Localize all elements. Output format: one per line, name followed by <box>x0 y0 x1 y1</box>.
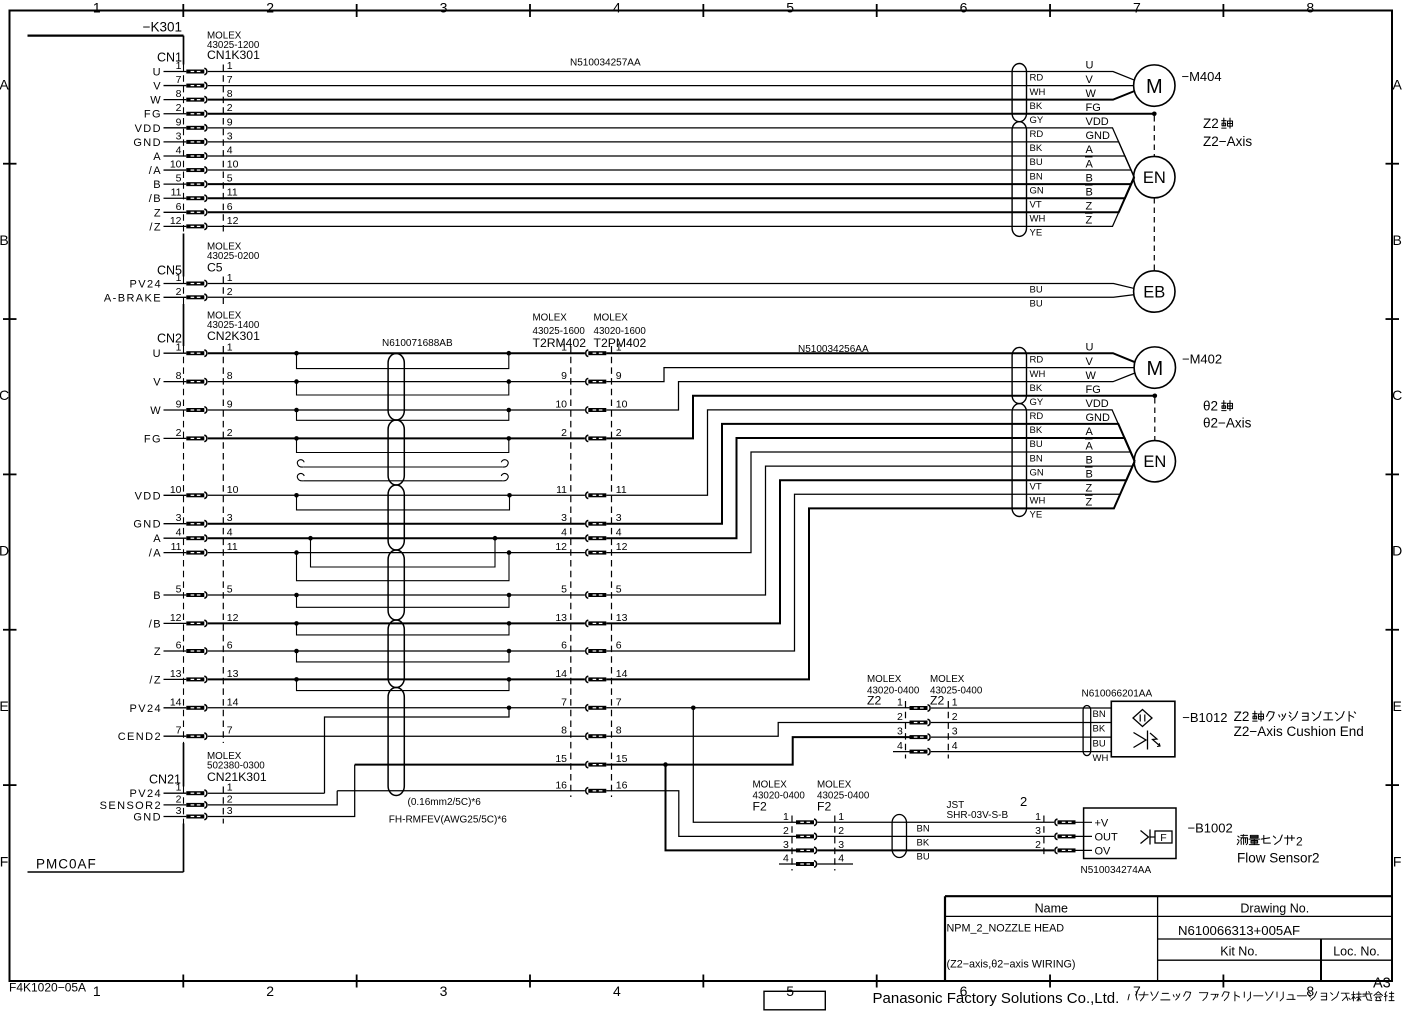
svg-text:4: 4 <box>176 144 182 156</box>
svg-text:8: 8 <box>176 370 182 382</box>
wire CN21 PV24 from PV24 node <box>208 792 325 794</box>
svg-text:5: 5 <box>176 173 182 185</box>
svg-text:D: D <box>0 543 9 559</box>
unit PMC0AF bottom edge <box>28 871 184 873</box>
svg-text:FG: FG <box>1086 102 1101 114</box>
svg-text:4: 4 <box>227 144 233 156</box>
connector CN2 pin 6 (Z) <box>154 640 233 659</box>
svg-text:MOLEX: MOLEX <box>753 780 788 791</box>
wire CN2 pin 5 B to T2RM402 pin 5 <box>208 594 585 596</box>
svg-text:Z: Z <box>1086 201 1093 213</box>
wire CN1 pin 7 V to Z2 motor cable (WH) <box>208 85 1134 87</box>
svg-text:3: 3 <box>227 130 233 142</box>
twisted-pair loop B with junctions <box>294 593 511 608</box>
wire Z2 pin 1 to sensor B1012 (BN) <box>931 707 1111 709</box>
svg-text:1: 1 <box>838 811 844 823</box>
wire CN1 pin 6 Z to Z2 motor cable (WH) <box>208 177 1134 212</box>
wire F2 pin 2 to sensor B1002 (BK) <box>817 835 1054 837</box>
svg-text:3: 3 <box>561 512 567 524</box>
svg-text:B: B <box>1086 172 1093 184</box>
svg-text:11: 11 <box>227 187 238 199</box>
svg-text:V: V <box>1086 356 1094 368</box>
svg-text:W: W <box>1086 88 1097 100</box>
svg-text:Z2−Axis: Z2−Axis <box>1203 134 1252 149</box>
cable shield Z2 motor wires <box>1012 64 1026 122</box>
svg-text:6: 6 <box>227 201 233 213</box>
svg-text:B: B <box>1086 468 1093 480</box>
svg-text:16: 16 <box>555 779 567 791</box>
svg-text:1: 1 <box>227 60 233 72</box>
svg-text:2: 2 <box>1035 839 1041 851</box>
svg-text:1: 1 <box>93 0 101 16</box>
wire T2PM402 pin 15 GND to Z2 connector pin 3 <box>606 737 909 765</box>
svg-text:RD: RD <box>1030 129 1044 140</box>
svg-text:3: 3 <box>227 805 233 817</box>
wire T2PM402 pin 14 to theta2 cable (YE) <box>606 461 1134 679</box>
svg-text:4: 4 <box>897 740 903 752</box>
svg-text:8: 8 <box>616 725 622 737</box>
connector CN2 pin 10 (VDD) <box>135 484 239 503</box>
svg-text:F: F <box>1160 832 1166 844</box>
svg-text:BN: BN <box>1093 709 1106 720</box>
connector B1002 boundary line <box>1043 816 1045 858</box>
svg-text:MOLEX: MOLEX <box>867 674 902 685</box>
connector T2RM402 boundary line <box>570 346 572 797</box>
junction PV24 to flow sensor F2 <box>691 706 696 711</box>
svg-text:2: 2 <box>176 102 182 114</box>
svg-text:M: M <box>1146 76 1163 98</box>
svg-text:MOLEX: MOLEX <box>594 313 629 324</box>
connector CN1 pin 9 (VDD) <box>135 116 233 135</box>
svg-text:MOLEX: MOLEX <box>930 674 965 685</box>
encoder EN Z2 <box>1134 156 1175 197</box>
svg-text:14: 14 <box>555 668 567 680</box>
wire CN1 pin 9 VDD to Z2 motor cable (RD) <box>208 128 1134 177</box>
wire CN1 pin 3 GND to Z2 motor cable (BK) <box>208 142 1134 177</box>
svg-text:D: D <box>1392 543 1402 559</box>
svg-text:B: B <box>1086 186 1093 198</box>
dashed link motor M404 to encoder <box>1153 116 1155 156</box>
svg-text:E: E <box>1393 698 1402 714</box>
svg-text:CN1K301: CN1K301 <box>207 48 260 62</box>
svg-text:3: 3 <box>176 130 182 142</box>
wire CN2 pin 11 /A to T2RM402 pin 12 <box>208 552 585 554</box>
svg-text:B: B <box>1393 232 1402 248</box>
wire CN2 pin 7 CEND2 to T2RM402 pin 8 <box>208 735 585 737</box>
svg-text:A: A <box>153 533 162 545</box>
connector T2RM402/T2PM402 pin 4 <box>561 527 622 542</box>
svg-text:Z2−Axis Cushion End: Z2−Axis Cushion End <box>1234 724 1364 739</box>
svg-text:WH: WH <box>1093 753 1109 764</box>
svg-text:2: 2 <box>952 711 958 723</box>
svg-text:B: B <box>1086 454 1093 466</box>
connector CN1 pin 1 (U) <box>153 60 233 79</box>
cable N610071688AB shield column <box>388 354 404 421</box>
svg-text:U: U <box>1086 60 1094 72</box>
cable shield theta2 encoder wires <box>1012 404 1026 517</box>
connector F2 pin 1 <box>783 811 844 826</box>
svg-text:PV24: PV24 <box>129 279 162 291</box>
svg-text:C5: C5 <box>207 261 223 275</box>
connector T2RM402/T2PM402 pin 7 <box>561 696 622 711</box>
wire CN1 pin 10 /A to Z2 motor cable (BN) <box>208 170 1134 177</box>
svg-text:8: 8 <box>561 725 567 737</box>
connector CN2 pin 2 (FG) <box>144 427 233 446</box>
wire T2PM402 pin 4 to theta2 cable (BU) <box>606 438 1134 538</box>
svg-text:12: 12 <box>170 612 182 624</box>
wire T2PM402 pin 6 to theta2 cable (WH) <box>606 461 1134 651</box>
svg-text:14: 14 <box>170 696 182 708</box>
svg-text:1: 1 <box>952 697 958 709</box>
wire CN2 pin 6 Z to T2RM402 pin 6 <box>208 650 585 652</box>
svg-text:5: 5 <box>227 173 233 185</box>
connector CN2 pin 3 (GND) <box>133 512 232 531</box>
svg-text:FG: FG <box>144 433 162 445</box>
svg-text:WH: WH <box>1030 496 1046 507</box>
svg-text:VT: VT <box>1030 481 1042 492</box>
svg-text:4: 4 <box>227 527 233 539</box>
wire T2PM402 pin 7 PV24 to Z2 connector pin 1 <box>606 707 909 709</box>
svg-text:/A: /A <box>149 548 162 560</box>
svg-text:12: 12 <box>227 215 239 227</box>
svg-text:W: W <box>150 405 162 417</box>
svg-text:10: 10 <box>170 484 182 496</box>
connector CN21 pin 2 (SENSOR2) <box>100 793 233 812</box>
connector F2 pin 3 <box>783 839 844 854</box>
svg-text:GY: GY <box>1030 397 1044 408</box>
connector CN1 pin 2 (FG) <box>144 102 233 121</box>
svg-text:3: 3 <box>440 0 448 16</box>
wire CN1 pin 8 W to Z2 motor cable (BK) <box>208 91 1135 100</box>
connector T2RM402/T2PM402 pin 10 <box>555 399 627 414</box>
svg-text:2: 2 <box>838 825 844 837</box>
svg-text:7: 7 <box>1133 983 1141 999</box>
unit PMC0AF rail <box>183 36 185 65</box>
dashed link motor M402 to encoder <box>1154 398 1156 441</box>
svg-text:1: 1 <box>176 782 182 794</box>
svg-text:1: 1 <box>616 342 622 354</box>
connector CN1 pin 12 (/Z) <box>149 215 238 234</box>
connector CN2 pin 12 (/B) <box>149 612 239 631</box>
twisted-pair loop A with junctions <box>308 536 497 567</box>
svg-text:W: W <box>150 95 162 107</box>
wire F2 pin 3 to sensor B1002 (BU) <box>817 849 1054 851</box>
connector T2RM402/T2PM402 pin 2 <box>561 427 622 442</box>
svg-text:RD: RD <box>1030 411 1044 422</box>
svg-text:12: 12 <box>227 612 239 624</box>
connector CN2 pin 9 (W) <box>150 399 233 418</box>
svg-text:4: 4 <box>613 983 621 999</box>
svg-text:9: 9 <box>227 116 233 128</box>
svg-text:WH: WH <box>1030 87 1046 98</box>
svg-text:6: 6 <box>176 201 182 213</box>
svg-text:3: 3 <box>227 512 233 524</box>
title block <box>945 895 1392 897</box>
svg-text:7: 7 <box>176 74 182 86</box>
svg-text:OV: OV <box>1095 845 1112 857</box>
connector CN21 boundary line <box>222 787 224 824</box>
svg-text:5: 5 <box>227 584 233 596</box>
connector T2RM402/T2PM402 pin 15 <box>555 753 627 768</box>
svg-text:16: 16 <box>616 779 628 791</box>
svg-text:7: 7 <box>227 725 233 737</box>
svg-text:/Z: /Z <box>149 674 162 686</box>
svg-text:Drawing No.: Drawing No. <box>1240 902 1309 916</box>
connector B1002 pin 3 <box>1035 825 1075 840</box>
svg-text:9: 9 <box>176 399 182 411</box>
svg-text:4: 4 <box>838 853 844 865</box>
svg-text:10: 10 <box>227 159 239 171</box>
svg-text:PV24: PV24 <box>129 788 162 800</box>
wire CN2 pin 8 V to T2RM402 pin 9 <box>208 381 585 383</box>
svg-text:GY: GY <box>1030 115 1044 126</box>
svg-text:12: 12 <box>616 541 628 553</box>
svg-text:GN: GN <box>1030 467 1044 478</box>
svg-text:GND: GND <box>133 519 162 531</box>
svg-text:EN: EN <box>1143 169 1166 187</box>
svg-text:WH: WH <box>1030 369 1046 380</box>
connector F2 pin 4 <box>783 853 844 868</box>
connector CN1 pin 11 (/B) <box>149 187 238 206</box>
svg-text:/B: /B <box>149 193 162 205</box>
svg-text:2: 2 <box>227 102 233 114</box>
wire CN2 pin 10 VDD to T2RM402 pin 11 <box>208 494 585 496</box>
svg-text:15: 15 <box>616 753 628 765</box>
wire CN5 pin 1 PV24 to brake EB (BU) <box>208 284 1134 289</box>
svg-text:B: B <box>153 179 162 191</box>
svg-text:B: B <box>0 232 9 248</box>
wire CN2 pin 12 /B to T2RM402 pin 13 <box>208 622 585 624</box>
wire T2PM402 pin 8 CEND2 to Z2 connector pin 2 <box>606 723 909 737</box>
svg-text:VDD: VDD <box>135 123 162 135</box>
svg-text:1: 1 <box>897 697 903 709</box>
wire CN2 pin 14 PV24 to T2RM402 pin 7 <box>208 707 585 709</box>
svg-text:7: 7 <box>616 696 622 708</box>
svg-text:BU: BU <box>1030 285 1043 296</box>
connector CN2 pin 8 (V) <box>153 370 233 389</box>
connector CN2 pin 1 (U) <box>153 342 233 361</box>
svg-text:2: 2 <box>227 427 233 439</box>
wire Z2 pin 2 to sensor B1012 (BK) <box>931 722 1111 724</box>
svg-text:FG: FG <box>144 109 162 121</box>
cable shield theta2 motor wires <box>1012 347 1026 403</box>
svg-text:VT: VT <box>1030 199 1042 210</box>
svg-text:2: 2 <box>176 427 182 439</box>
stub F2 pin 4 <box>779 863 796 865</box>
svg-text:2: 2 <box>897 711 903 723</box>
svg-text:M: M <box>1146 358 1163 380</box>
svg-text:EB: EB <box>1143 283 1165 301</box>
svg-text:2: 2 <box>176 286 182 298</box>
wire T2PM402 pin 13 to theta2 cable (VT) <box>606 461 1134 623</box>
wire CN1 pin 2 FG to Z2 motor cable (GY) <box>208 113 1155 115</box>
connector CN2 pin 5 (B) <box>153 584 233 603</box>
svg-text:−B1002: −B1002 <box>1188 821 1233 836</box>
wire CN2 pin 9 W to T2RM402 pin 10 <box>208 409 585 411</box>
svg-text:BU: BU <box>1030 299 1043 310</box>
svg-text:BK: BK <box>1030 383 1043 394</box>
svg-text:BK: BK <box>1030 425 1043 436</box>
connector T2PM402 boundary line <box>611 346 613 797</box>
wire CN1 pin 11 /B to Z2 motor cable (VT) <box>208 177 1134 198</box>
wire T2PM402 pin 1 to theta2 cable (RD) <box>606 353 1135 362</box>
svg-text:A3: A3 <box>1373 976 1391 992</box>
svg-text:Z: Z <box>1086 497 1093 509</box>
connector CN2 pin 13 (/Z) <box>149 668 238 687</box>
svg-text:3: 3 <box>176 512 182 524</box>
svg-text:2: 2 <box>783 825 789 837</box>
svg-text:C: C <box>0 387 9 403</box>
connector Z2 boundary lines <box>905 701 907 759</box>
wire CN5 pin 2 A-BRAKE to brake EB (BU) <box>208 295 1134 298</box>
connector T2RM402/T2PM402 pin 14 <box>555 668 627 683</box>
svg-text:3: 3 <box>783 839 789 851</box>
svg-text:4: 4 <box>952 740 958 752</box>
wire T2PM402 pin 12 to theta2 cable (BN) <box>606 452 1134 553</box>
svg-text:10: 10 <box>227 484 239 496</box>
connector CN5 pin 1 (PV24) <box>129 272 232 291</box>
svg-text:CN21K301: CN21K301 <box>207 770 267 784</box>
svg-text:3: 3 <box>176 805 182 817</box>
svg-text:A: A <box>1393 77 1403 93</box>
svg-text:6: 6 <box>616 640 622 652</box>
svg-text:OUT: OUT <box>1095 831 1119 843</box>
svg-text:BN: BN <box>917 824 930 835</box>
svg-text:Z2: Z2 <box>1203 116 1219 131</box>
svg-text:/A: /A <box>149 165 162 177</box>
wire CN1 pin 1 U to Z2 motor cable (RD) <box>208 72 1135 81</box>
svg-text:VDD: VDD <box>1086 116 1109 128</box>
unused conductor hook 2 <box>297 473 508 480</box>
svg-text:12: 12 <box>170 215 182 227</box>
connector Z2 pin 3 <box>897 726 958 741</box>
svg-text:YE: YE <box>1030 510 1043 521</box>
svg-text:11: 11 <box>227 541 238 553</box>
svg-text:2: 2 <box>616 427 622 439</box>
connector CN2 boundary line <box>222 346 224 743</box>
svg-text:Panasonic Factory Solutions Co: Panasonic Factory Solutions Co.,Ltd. <box>873 990 1120 1007</box>
svg-text:V: V <box>153 81 162 93</box>
connector CN1 pin 8 (W) <box>150 88 233 107</box>
connector CN2 pin 11 (/A) <box>149 541 238 560</box>
connector T2RM402/T2PM402 pin 11 <box>556 484 627 499</box>
svg-text:Kit No.: Kit No. <box>1220 945 1258 959</box>
svg-text:14: 14 <box>227 696 239 708</box>
svg-text:PV24: PV24 <box>129 703 162 715</box>
svg-text:(0.16mm2/5C)*6: (0.16mm2/5C)*6 <box>408 797 482 808</box>
wire Z2 pin 3 to sensor B1012 (BU) <box>931 736 1111 738</box>
svg-text:9: 9 <box>176 116 182 128</box>
svg-text:F2: F2 <box>817 800 831 814</box>
svg-text:2: 2 <box>176 793 182 805</box>
wire CN1 pin 4 A to Z2 motor cable (BU) <box>208 156 1134 177</box>
svg-text:1: 1 <box>176 272 182 284</box>
svg-text:7: 7 <box>227 74 233 86</box>
svg-text:1: 1 <box>783 811 789 823</box>
connector T2RM402/T2PM402 pin 5 <box>561 584 622 599</box>
connector T2RM402/T2PM402 pin 12 <box>555 541 627 556</box>
svg-text:BU: BU <box>1030 439 1043 450</box>
svg-text:BK: BK <box>1093 724 1106 735</box>
svg-text:11: 11 <box>171 541 182 553</box>
junction FG to motor frame theta2 <box>1153 393 1158 398</box>
svg-text:5: 5 <box>561 584 567 596</box>
svg-text:Z2: Z2 <box>867 694 881 708</box>
svg-text:BK: BK <box>1030 143 1043 154</box>
twisted-pair loop VDD with junctions <box>294 493 512 510</box>
svg-text:C: C <box>1392 387 1402 403</box>
svg-text:6: 6 <box>960 0 968 16</box>
svg-text:GND: GND <box>133 137 162 149</box>
connector B1002 pin 1 <box>1035 811 1075 826</box>
svg-text:3: 3 <box>616 512 622 524</box>
svg-text:(Z2−axis,θ2−axis WIRING): (Z2−axis,θ2−axis WIRING) <box>947 959 1076 971</box>
connector CN1 boundary line <box>222 65 224 234</box>
svg-text:Z2: Z2 <box>930 694 944 708</box>
svg-text:/Z: /Z <box>149 221 162 233</box>
twisted-pair loop Z with junctions <box>294 649 511 662</box>
revision box <box>764 991 825 1010</box>
svg-text:V: V <box>1086 74 1094 86</box>
svg-text:1: 1 <box>176 60 182 72</box>
wire T2PM402 pin 16 SENSOR2 to F2 connector pin 2 <box>606 791 796 837</box>
connector T2RM402/T2PM402 pin 8 <box>561 725 622 740</box>
svg-text:13: 13 <box>227 668 239 680</box>
connector F2 boundary lines <box>791 816 793 871</box>
wire T2PM402 pin 3 to theta2 cable (BK) <box>606 424 1134 524</box>
svg-text:2: 2 <box>227 793 233 805</box>
svg-text:Z: Z <box>154 646 162 658</box>
cable shield B1002 JST <box>892 815 906 858</box>
wire CN2 pin 2 FG to T2RM402 pin 2 <box>208 437 585 439</box>
encoder EN theta2 <box>1134 441 1175 482</box>
svg-text:Z2: Z2 <box>1234 709 1250 724</box>
svg-text:/B: /B <box>149 618 162 630</box>
svg-text:8: 8 <box>227 88 233 100</box>
svg-text:12: 12 <box>555 541 567 553</box>
wire T2PM402 pin 11 to theta2 cable (RD) <box>606 410 1134 495</box>
svg-text:3: 3 <box>838 839 844 851</box>
svg-text:7: 7 <box>176 725 182 737</box>
svg-text:5: 5 <box>616 584 622 596</box>
svg-text:FG: FG <box>1086 384 1101 396</box>
svg-text:1: 1 <box>93 983 101 999</box>
wire CN21 SENSOR2 to T2RM402 pin 16 <box>208 791 337 805</box>
connector CN1 pin 4 (A) <box>153 144 233 163</box>
twisted-pair loop /B with junctions <box>294 621 511 635</box>
svg-text:9: 9 <box>561 370 567 382</box>
svg-text:F: F <box>1393 853 1402 869</box>
svg-text:13: 13 <box>170 668 182 680</box>
connector CN5 boundary line <box>222 277 224 305</box>
svg-text:U: U <box>1086 342 1094 354</box>
svg-text:BK: BK <box>1030 101 1043 112</box>
svg-text:11: 11 <box>616 484 627 496</box>
svg-text:SENSOR2: SENSOR2 <box>100 800 162 812</box>
unit PMC0AF boundary -K301 line <box>28 34 184 36</box>
svg-text:A: A <box>0 77 9 93</box>
cable shield Z2 encoder wires <box>1012 122 1026 237</box>
connector CN2 pin 7 (CEND2) <box>118 725 233 744</box>
svg-text:E: E <box>0 698 9 714</box>
svg-text:A: A <box>153 151 162 163</box>
svg-text:14: 14 <box>616 668 628 680</box>
svg-text:4: 4 <box>783 853 789 865</box>
svg-text:8: 8 <box>176 88 182 100</box>
svg-text:2: 2 <box>266 0 274 16</box>
junction FG to motor frame Z2 <box>1152 111 1157 116</box>
brake EB <box>1134 271 1175 312</box>
